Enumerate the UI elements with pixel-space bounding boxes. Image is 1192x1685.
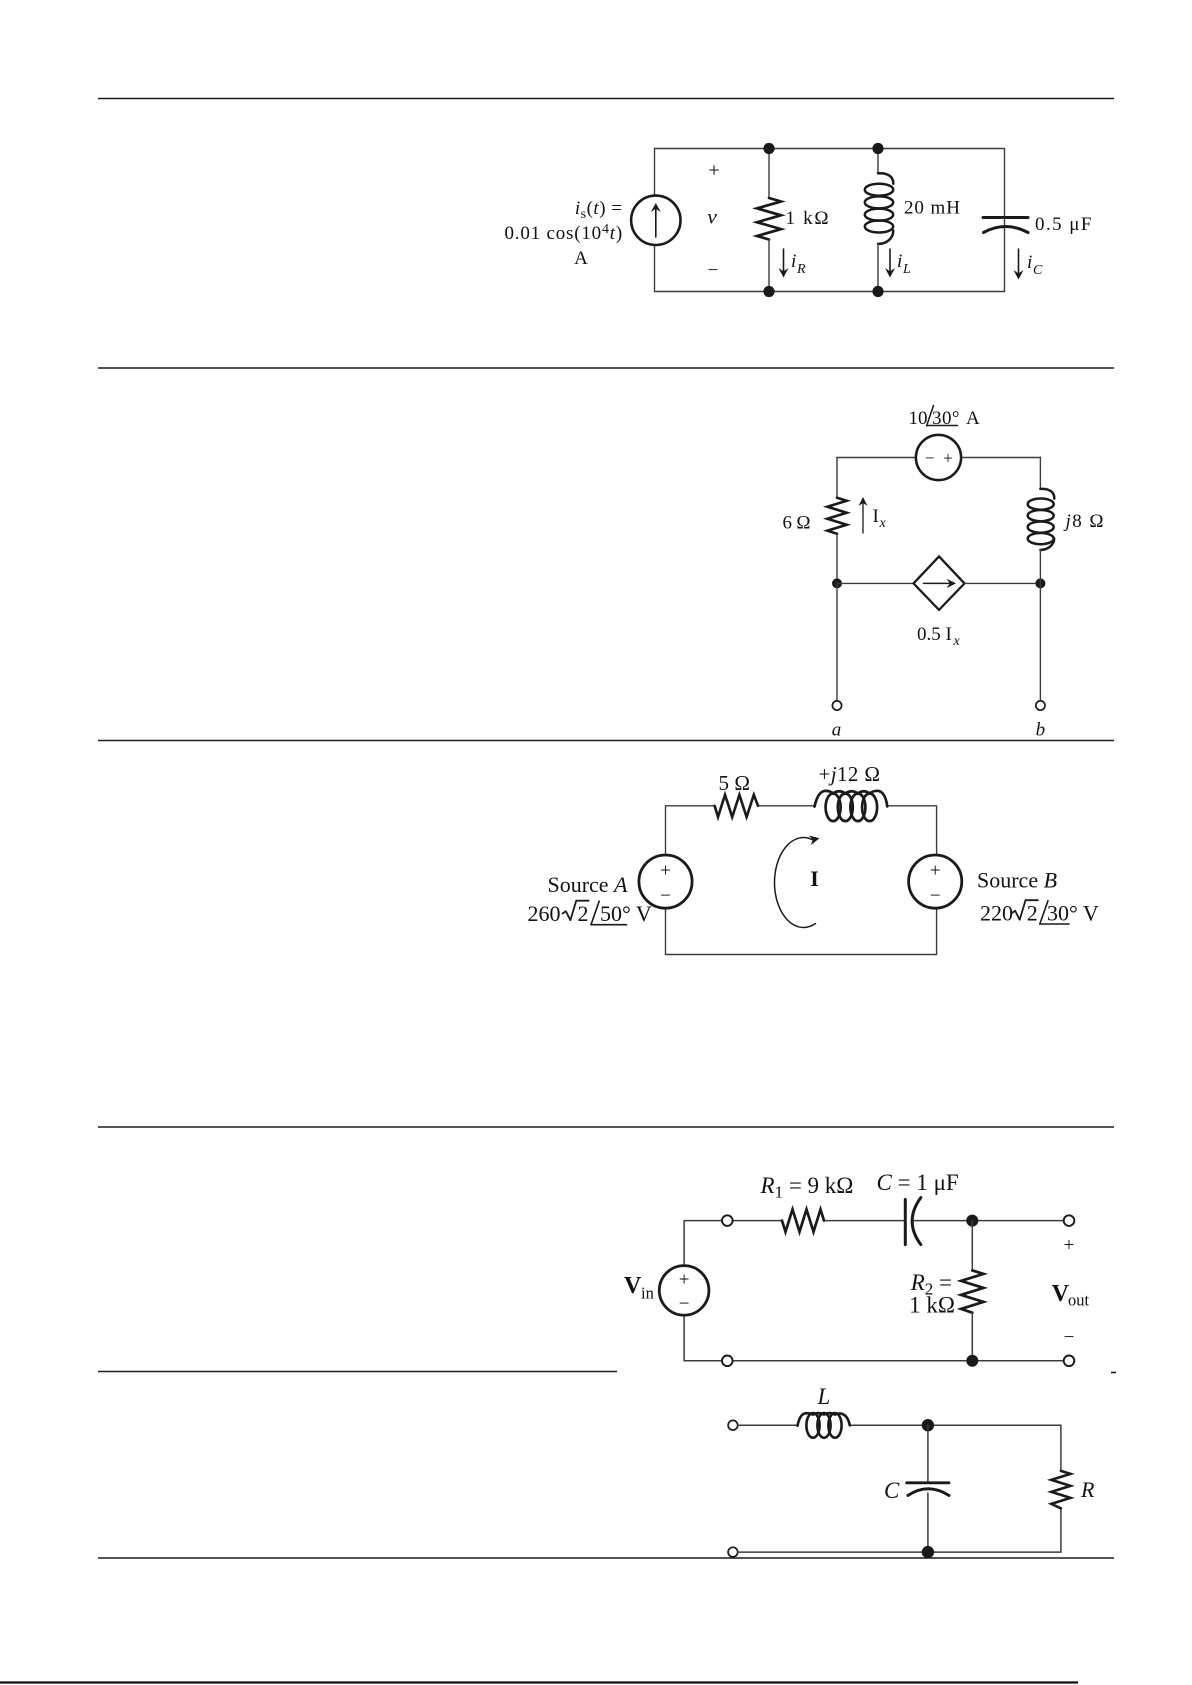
wire: bottom rail	[684, 1315, 1069, 1361]
svg-text:+: +	[943, 449, 953, 468]
separator rule 5 right tick	[1111, 1372, 1116, 1374]
svg-text:220: 220	[980, 901, 1013, 926]
svg-text:I: I	[810, 866, 819, 891]
terminal bottom-left	[728, 1547, 738, 1557]
svg-text:−: −	[660, 886, 671, 907]
svg-text:50° V: 50° V	[600, 901, 652, 926]
bottom page rule	[0, 1681, 1078, 1683]
svg-text:10: 10	[909, 408, 928, 429]
source Vin	[659, 1266, 709, 1316]
arrow iR	[783, 249, 785, 272]
svg-text:v: v	[707, 205, 717, 229]
svg-text:0.5 I: 0.5 I	[917, 624, 952, 645]
terminal bottom-left	[722, 1356, 733, 1367]
resistor R	[1051, 1471, 1070, 1508]
label 260 sqrt2 /50 V	[528, 901, 652, 926]
svg-text:+: +	[1064, 1235, 1075, 1256]
svg-text:+j12 Ω: +j12 Ω	[819, 762, 881, 786]
source 10/30 A	[916, 435, 961, 480]
svg-text:R: R	[1080, 1477, 1095, 1502]
label is(t)	[504, 198, 623, 269]
svg-text:i: i	[897, 251, 902, 272]
wire: top rail	[738, 1424, 1061, 1426]
svg-text:+: +	[679, 1270, 690, 1291]
resistor 1k	[768, 149, 770, 199]
svg-text:x: x	[953, 634, 961, 649]
dependent source 0.5Ix diamond	[914, 556, 965, 610]
svg-text:2: 2	[1027, 901, 1038, 926]
svg-text:−: −	[930, 886, 941, 907]
wire: cap vertical lower	[927, 1493, 929, 1552]
svg-text:30° V: 30° V	[1047, 901, 1099, 926]
svg-text:−: −	[1064, 1327, 1075, 1348]
svg-text:6 Ω: 6 Ω	[783, 513, 811, 534]
svg-text:in: in	[641, 1284, 654, 1303]
svg-text:V: V	[624, 1273, 642, 1299]
node dot top L	[872, 143, 883, 154]
separator rule 3	[98, 740, 1114, 742]
svg-text:b: b	[1036, 720, 1046, 741]
svg-text:1 kΩ: 1 kΩ	[909, 1293, 955, 1318]
wire: right stub to terminal b	[1039, 583, 1041, 700]
mesh current arc I	[775, 838, 816, 928]
wire: right vertical	[1060, 1425, 1062, 1552]
resistor R1	[782, 1209, 824, 1231]
wire: circuit 1 outer loop	[655, 149, 1005, 292]
svg-text:+: +	[708, 160, 720, 182]
svg-text:C: C	[1033, 263, 1043, 278]
svg-text:−: −	[708, 260, 719, 281]
svg-text:260: 260	[528, 901, 561, 926]
wire: top left segment	[837, 457, 916, 459]
wire: left vertical upper	[836, 458, 838, 498]
capacitor C	[904, 1200, 907, 1245]
svg-text:2: 2	[578, 901, 589, 926]
node dot bottom L	[872, 286, 883, 297]
svg-text:30°: 30°	[932, 408, 960, 429]
node dot bottom R	[763, 286, 774, 297]
svg-text:A: A	[966, 408, 980, 429]
resistor 5 Ohm	[715, 795, 758, 817]
svg-text:C = 1 μF: C = 1 μF	[877, 1170, 959, 1195]
svg-text:i: i	[1027, 252, 1032, 273]
svg-text:C: C	[884, 1478, 900, 1503]
inductor +j12	[815, 791, 888, 807]
svg-text:A: A	[574, 248, 588, 269]
node dot top	[966, 1215, 978, 1227]
source A circle	[639, 855, 692, 908]
terminal top-right	[1064, 1215, 1075, 1226]
arrow iC	[1018, 249, 1020, 274]
source B circle	[909, 855, 962, 908]
arrow iL	[889, 249, 891, 272]
terminal top-left	[722, 1215, 733, 1226]
svg-text:Source B: Source B	[977, 868, 1057, 893]
svg-text:+: +	[930, 861, 941, 882]
arrow Ix	[862, 503, 864, 533]
current source is	[631, 196, 680, 245]
svg-text:−: −	[925, 449, 935, 468]
svg-text:is(t) =: is(t) =	[575, 198, 623, 222]
separator rule 6	[98, 1557, 1114, 1559]
svg-text:x: x	[879, 516, 887, 531]
wire: outer loop	[666, 806, 937, 955]
label 220 sqrt2 /30 V	[980, 900, 1099, 925]
wire: middle right	[965, 582, 1041, 584]
separator rule 5 (partial)	[98, 1371, 617, 1373]
capacitor 0.5uF	[983, 216, 1028, 219]
node dot top R	[763, 143, 774, 154]
separator rule 4	[98, 1126, 1114, 1128]
wire: right vertical upper	[1039, 458, 1041, 489]
node dot left	[832, 578, 842, 588]
svg-text:−: −	[679, 1294, 690, 1315]
inductor L	[798, 1413, 850, 1426]
resistor R2	[971, 1221, 973, 1271]
label 10/30 A	[909, 406, 981, 430]
inductor j8	[1040, 489, 1054, 499]
svg-text:0.01 cos(104t): 0.01 cos(104t)	[504, 222, 623, 244]
separator rule 2	[98, 367, 1114, 369]
node dot bottom	[966, 1355, 978, 1367]
svg-text:R: R	[796, 262, 806, 277]
wire: cap vertical upper	[927, 1425, 929, 1481]
terminal top-left	[728, 1420, 738, 1430]
wire: left stub to terminal a	[836, 583, 838, 700]
svg-text:I: I	[873, 506, 879, 527]
separator rule 1	[98, 98, 1114, 100]
svg-text:+: +	[660, 861, 671, 882]
svg-text:a: a	[832, 720, 842, 741]
node dot top	[922, 1419, 934, 1431]
terminal bottom-right	[1064, 1356, 1075, 1367]
svg-text:1 kΩ: 1 kΩ	[786, 208, 829, 229]
svg-text:L: L	[902, 262, 911, 277]
svg-text:20 mH: 20 mH	[904, 198, 960, 219]
wire: middle left	[837, 582, 914, 584]
inductor 20mH	[877, 149, 879, 174]
svg-text:0.5 μF: 0.5 μF	[1035, 214, 1092, 235]
svg-text:5 Ω: 5 Ω	[719, 771, 751, 795]
wire: top right segment	[961, 457, 1040, 459]
node dot right	[1035, 578, 1045, 588]
svg-text:j8 Ω: j8 Ω	[1063, 511, 1104, 532]
svg-text:Source A: Source A	[547, 872, 628, 897]
resistor 6 Ohm	[827, 498, 846, 534]
wire: left vertical to node	[836, 534, 838, 584]
node dot bottom	[922, 1546, 934, 1558]
wire: bottom rail	[738, 1551, 1061, 1553]
svg-text:i: i	[791, 251, 796, 272]
wire: right vertical to node	[1039, 549, 1041, 583]
svg-text:L: L	[817, 1384, 831, 1409]
capacitor C plates	[907, 1481, 949, 1484]
svg-text:out: out	[1068, 1291, 1090, 1310]
terminal b	[1036, 701, 1045, 710]
svg-text:R1 = 9 kΩ: R1 = 9 kΩ	[760, 1173, 854, 1202]
terminal a	[832, 701, 841, 710]
wire: top rail	[684, 1221, 1069, 1266]
